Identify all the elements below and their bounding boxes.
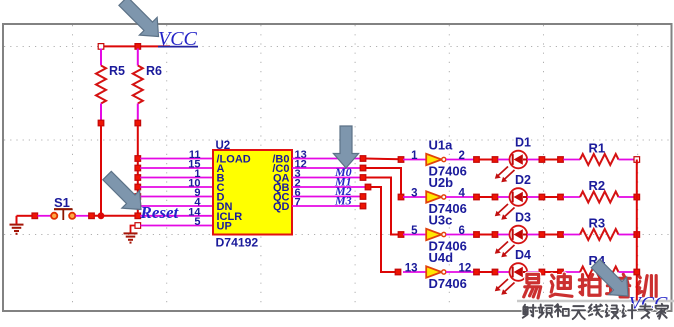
power symbol VCC (bottom)	[629, 293, 669, 315]
LED D1	[510, 151, 528, 169]
label U4d	[429, 250, 454, 265]
pin 12 (U4d out)	[459, 263, 472, 275]
U2 left pin names	[217, 154, 251, 233]
svg-text:4: 4	[459, 188, 466, 200]
wire S1 to Reset node	[94, 215, 138, 217]
svg-text:D74192: D74192	[216, 236, 259, 250]
emission arrows D1	[495, 167, 515, 183]
svg-text:QD: QD	[273, 201, 290, 213]
wire R6 to Reset node	[137, 126, 139, 216]
wire QA to U3c	[366, 178, 399, 235]
pad S1 left	[32, 213, 38, 219]
pad R2 right / VCC bus	[634, 194, 640, 200]
wire U2b output	[446, 196, 474, 198]
junction dot R5/switch	[98, 212, 105, 219]
label D7406 (U4d)	[429, 276, 467, 291]
wire VCC bus (right)	[636, 160, 638, 301]
svg-text:VCC: VCC	[158, 28, 198, 50]
junction bus row 6	[135, 203, 141, 209]
svg-text:5: 5	[411, 225, 418, 237]
junction bus row 3	[135, 175, 141, 181]
LED D4	[510, 263, 528, 281]
junction VCC-R6	[135, 44, 141, 50]
svg-text:U3c: U3c	[429, 213, 453, 228]
pad U2b input	[398, 194, 404, 200]
pad /C0	[360, 165, 366, 171]
pin 2 (U1a out)	[459, 150, 465, 162]
watermark separator line	[517, 300, 674, 302]
lead D4 cathode	[527, 271, 541, 273]
wire to U2 pin C	[140, 186, 213, 188]
wire VCC rail	[101, 45, 170, 47]
svg-text:D7406: D7406	[429, 276, 467, 291]
LED D3	[510, 226, 528, 244]
svg-text:R6: R6	[146, 64, 162, 78]
junction Reset node	[135, 213, 141, 219]
svg-text:2: 2	[459, 150, 465, 162]
label R3	[589, 216, 606, 231]
inverter gate U2b D7406	[426, 191, 446, 202]
wire to U2 pin DN	[140, 205, 213, 207]
label S1	[54, 195, 70, 210]
callout arrow 3 (Reset)	[98, 167, 150, 219]
pad R4 right / VCC bus	[634, 269, 640, 275]
wire U2 QB out	[292, 186, 366, 188]
ground (S1 side)	[10, 216, 24, 234]
wire to U2 UP	[140, 225, 213, 227]
wire QB to U4d	[371, 187, 396, 272]
wire Reset to U2 ICLR	[140, 215, 213, 217]
pin 13 (U4d in)	[405, 263, 418, 275]
label U2	[216, 140, 231, 152]
pad U1a out	[474, 157, 480, 163]
emission arrows D2	[495, 204, 515, 220]
LED D2	[510, 188, 528, 206]
net label M2	[334, 184, 352, 198]
svg-text:D4: D4	[515, 248, 531, 262]
pad U4d out	[474, 269, 480, 275]
svg-text:12: 12	[459, 263, 472, 275]
pin 4 (U2b out)	[459, 188, 466, 200]
svg-text:UP: UP	[217, 221, 232, 233]
resistor R3	[580, 229, 619, 240]
inverter gate U1a D7406	[426, 154, 446, 165]
wire U2 QA out	[292, 177, 361, 179]
wire U2 QD out	[292, 205, 361, 207]
pad U1a input	[398, 157, 404, 163]
resistor R1	[580, 154, 619, 165]
pad D3 right	[539, 232, 545, 238]
svg-text:D1: D1	[515, 136, 531, 150]
pad D1 left	[492, 157, 498, 163]
svg-text:1: 1	[411, 150, 418, 162]
wire into U3c	[403, 234, 426, 236]
wire D2 to R2	[545, 196, 558, 198]
pad R1 left	[558, 157, 564, 163]
svg-text:D3: D3	[515, 211, 531, 225]
svg-text:13: 13	[405, 263, 418, 275]
wire into U4d	[403, 271, 426, 273]
svg-text:U2b: U2b	[429, 175, 454, 190]
label R1	[589, 141, 606, 156]
power bar under VCC	[158, 46, 198, 48]
net label M0	[334, 165, 352, 179]
callout arrow 1 (VCC top)	[114, 0, 167, 45]
wire /C0 to U2b	[366, 168, 402, 197]
lead R1 left	[563, 159, 580, 161]
label D2	[515, 173, 531, 187]
resistor R5	[96, 49, 106, 121]
svg-text:R1: R1	[589, 141, 606, 156]
wire /B0 to U1a	[366, 158, 402, 161]
resistor R2	[580, 192, 619, 203]
label D7406 (U2b)	[429, 201, 467, 216]
callout arrow 4 (VCC bottom)	[587, 255, 637, 305]
junction bus row 1	[135, 156, 141, 162]
label U1a	[429, 138, 454, 153]
pin 1 (U1a in)	[411, 150, 418, 162]
junction bus row 2	[135, 165, 141, 171]
svg-text:U1a: U1a	[429, 138, 454, 153]
svg-text:R3: R3	[589, 216, 606, 231]
U2 right pin numbers	[295, 149, 307, 209]
pad /B0	[360, 156, 366, 162]
wire U1a output	[446, 159, 474, 161]
pad QD	[360, 203, 366, 209]
pad U3c out	[474, 232, 480, 238]
label D1	[515, 136, 531, 150]
wire D1 to R1	[545, 159, 558, 161]
label U3c	[429, 213, 453, 228]
lead D3 cathode	[527, 234, 541, 236]
lead D2 anode	[498, 196, 510, 198]
ground (UP pin)	[124, 226, 138, 243]
wire U4d output	[446, 271, 474, 273]
label R5	[109, 64, 125, 78]
pad D4 right	[539, 269, 545, 275]
label D7406 (U3c)	[429, 239, 467, 254]
pad D4 left	[492, 269, 498, 275]
wire U2 QC out	[292, 196, 361, 198]
switch S1	[51, 209, 75, 220]
svg-text:Reset: Reset	[140, 203, 180, 222]
resistor R6	[133, 49, 143, 121]
pad R5 bottom	[98, 120, 104, 126]
pad S1 right	[89, 213, 95, 219]
junction bus row 4	[135, 184, 141, 190]
label U2b	[429, 175, 454, 190]
pad U2b out	[474, 194, 480, 200]
svg-text:M3: M3	[334, 194, 352, 208]
inverter gate U3c D7406	[426, 229, 446, 240]
pin 3 (U2b in)	[411, 188, 417, 200]
pad D3 left	[492, 232, 498, 238]
svg-text:5: 5	[194, 216, 200, 228]
pad QC	[360, 194, 366, 200]
inverter gate U4d D7406	[426, 266, 446, 277]
pin 5 (U3c in)	[411, 225, 418, 237]
svg-text:S1: S1	[54, 195, 70, 210]
svg-text:D2: D2	[515, 173, 531, 187]
wire to U2 pin B	[140, 177, 213, 179]
svg-text:6: 6	[459, 225, 465, 237]
wire ground to S1	[17, 215, 33, 217]
pad QB	[365, 184, 371, 190]
U2 right pin names	[272, 154, 289, 214]
watermark gray text 射频和天线设计专家	[523, 304, 668, 319]
lead S1 right	[76, 215, 89, 217]
resistor R4	[580, 267, 619, 278]
callout arrow 2 (M nets)	[333, 126, 358, 168]
wire D3 to R3	[545, 234, 558, 236]
wire to U2 pin A	[140, 167, 213, 169]
wire U2 /C0 out	[292, 167, 361, 169]
pad R3 right / VCC bus	[634, 232, 640, 238]
pad D1 right	[539, 157, 545, 163]
lead R1 right	[619, 159, 635, 161]
lead D2 cathode	[527, 196, 541, 198]
watermark red text 易迪拍培训	[524, 274, 656, 298]
wire to D3	[479, 234, 492, 236]
pad U3c input	[398, 232, 404, 238]
emission arrows D3	[495, 242, 515, 258]
pad R6 bottom	[135, 120, 141, 126]
pad UP node	[135, 223, 141, 229]
label D7406 (U1a)	[429, 164, 467, 179]
power symbol VCC (top)	[158, 28, 198, 50]
label R2	[589, 178, 606, 193]
label D4	[515, 248, 531, 262]
lead R2 left	[563, 196, 580, 198]
pad D2 right	[539, 194, 545, 200]
wire R5 to switch node	[100, 126, 102, 216]
IC U2 D74192 body	[213, 150, 292, 235]
lead R3 left	[563, 234, 580, 236]
wire U3c output	[446, 234, 474, 236]
svg-text:R2: R2	[589, 178, 606, 193]
wire to D4	[479, 271, 492, 273]
lead D1 anode	[498, 159, 510, 161]
pad R1 right / VCC bus	[634, 157, 640, 163]
net label M1	[334, 175, 352, 189]
net label Reset	[140, 203, 180, 222]
label D3	[515, 211, 531, 225]
label R6	[146, 64, 162, 78]
pad R3 left	[558, 232, 564, 238]
pad U4d input	[395, 269, 401, 275]
U2 left pin numbers	[188, 149, 201, 228]
pad R4 left	[558, 269, 564, 275]
wire D4 to R4	[545, 271, 558, 273]
lead S1 left	[38, 215, 51, 217]
pin 6 (U3c out)	[459, 225, 465, 237]
wire U2 /B0 out	[292, 158, 361, 160]
lead D3 anode	[498, 234, 510, 236]
label D74192	[216, 236, 259, 250]
wire to U2 pin D	[140, 196, 213, 198]
wire to D2	[479, 196, 492, 198]
wire to U2 pin /LOAD	[140, 158, 213, 160]
wire into U2b	[403, 196, 426, 198]
wire into U1a	[403, 159, 426, 161]
pad QA	[360, 175, 366, 181]
emission arrows D4	[495, 279, 515, 295]
net label M3	[334, 194, 352, 208]
lead R3 right	[619, 234, 635, 236]
svg-text:U2: U2	[216, 140, 231, 152]
lead R4 left	[563, 271, 580, 273]
pad D2 left	[492, 194, 498, 200]
junction bus row 5	[135, 194, 141, 200]
node VCC-R5 (hollow pad)	[98, 44, 104, 50]
svg-text:U4d: U4d	[429, 250, 454, 265]
label R4	[589, 253, 606, 268]
svg-text:3: 3	[411, 188, 417, 200]
wire to D1	[479, 159, 492, 161]
svg-text:R5: R5	[109, 64, 125, 78]
lead R2 right	[619, 196, 635, 198]
lead D1 cathode	[527, 159, 541, 161]
lead D4 anode	[498, 271, 510, 273]
lead R4 right	[619, 271, 635, 273]
pad R2 left	[558, 194, 564, 200]
